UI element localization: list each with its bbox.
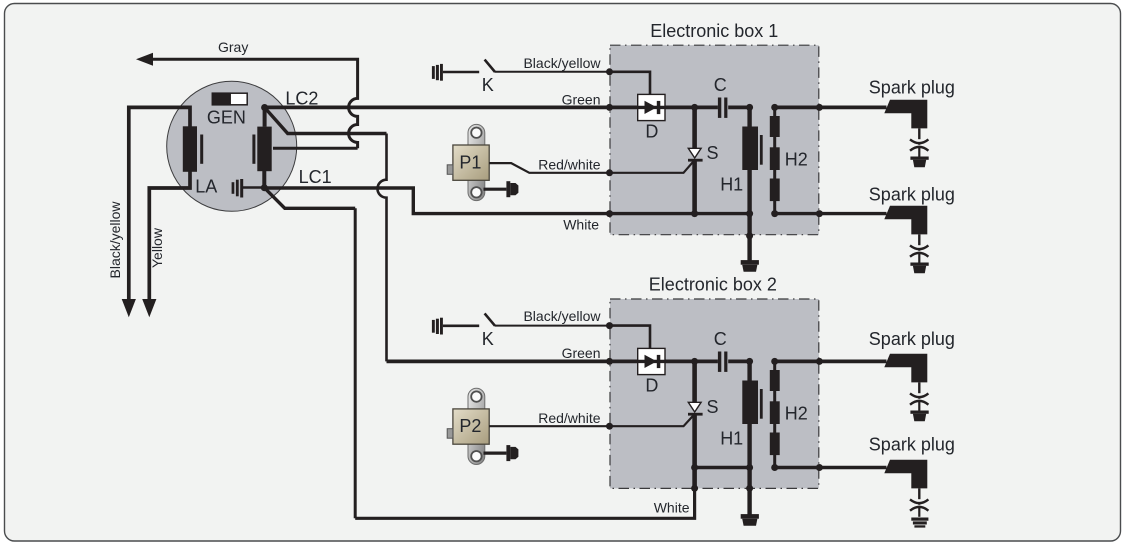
svg-text:K: K bbox=[482, 75, 494, 95]
svg-text:K: K bbox=[482, 329, 494, 349]
svg-text:LC1: LC1 bbox=[299, 167, 332, 187]
svg-text:White: White bbox=[654, 499, 690, 515]
svg-text:Red/white: Red/white bbox=[538, 156, 600, 172]
svg-text:Yellow: Yellow bbox=[149, 227, 165, 268]
svg-text:Electronic box 2: Electronic box 2 bbox=[649, 275, 777, 295]
svg-text:Green: Green bbox=[562, 91, 601, 107]
svg-text:Electronic box 1: Electronic box 1 bbox=[650, 21, 778, 41]
svg-text:D: D bbox=[645, 376, 658, 396]
svg-text:LA: LA bbox=[195, 177, 217, 197]
svg-text:P2: P2 bbox=[459, 416, 481, 436]
svg-text:C: C bbox=[714, 75, 727, 95]
svg-text:H2: H2 bbox=[785, 404, 808, 424]
svg-text:P1: P1 bbox=[459, 152, 481, 172]
svg-text:Spark plug: Spark plug bbox=[869, 185, 955, 205]
svg-text:Red/white: Red/white bbox=[538, 410, 600, 426]
svg-text:GEN: GEN bbox=[207, 107, 246, 127]
svg-text:S: S bbox=[707, 143, 719, 163]
svg-text:Spark plug: Spark plug bbox=[869, 434, 955, 454]
svg-text:Gray: Gray bbox=[218, 39, 248, 55]
svg-text:Black/yellow: Black/yellow bbox=[107, 201, 123, 279]
svg-text:Spark plug: Spark plug bbox=[869, 77, 955, 97]
svg-text:C: C bbox=[714, 329, 727, 349]
svg-text:D: D bbox=[645, 122, 658, 142]
svg-text:Black/yellow: Black/yellow bbox=[523, 308, 601, 324]
svg-text:Black/yellow: Black/yellow bbox=[523, 55, 601, 71]
svg-text:White: White bbox=[563, 216, 599, 232]
svg-text:H1: H1 bbox=[720, 429, 743, 449]
svg-text:LC2: LC2 bbox=[285, 88, 318, 108]
svg-text:S: S bbox=[707, 397, 719, 417]
svg-text:H2: H2 bbox=[785, 150, 808, 170]
svg-text:H1: H1 bbox=[720, 175, 743, 195]
svg-text:Green: Green bbox=[562, 345, 601, 361]
svg-text:Spark plug: Spark plug bbox=[869, 329, 955, 349]
